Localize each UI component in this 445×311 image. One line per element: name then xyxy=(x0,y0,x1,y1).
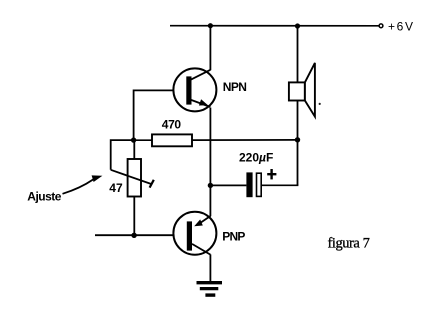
wire pot bottom lead xyxy=(133,197,135,236)
speaker LS1 xyxy=(289,63,315,117)
wire NPN collector vertical xyxy=(209,26,211,70)
transistor Q1 NPN xyxy=(173,68,216,111)
arrow ajuste pointer xyxy=(63,175,103,193)
wire speaker branch vertical xyxy=(297,26,299,185)
node pot / PNP base junction xyxy=(131,233,136,238)
wire top supply rail xyxy=(170,25,379,27)
wire PNP collector vertical to ground xyxy=(209,254,211,282)
svg-text:figura 7: figura 7 xyxy=(328,235,370,251)
wire PNP base lead xyxy=(95,234,173,236)
ground xyxy=(197,283,223,295)
wiper end tick xyxy=(150,180,154,188)
svg-text:PNP: PNP xyxy=(222,229,245,243)
label + cap polarity xyxy=(267,169,276,179)
wire resistor right lead to speaker branch xyxy=(192,139,298,141)
wire capacitor right lead xyxy=(262,184,298,186)
node speaker branch / resistor junction xyxy=(295,137,300,142)
wire resistor left lead xyxy=(134,139,152,141)
transistor Q2 PNP xyxy=(173,212,216,255)
node A bias junction xyxy=(131,137,136,142)
svg-text:470: 470 xyxy=(162,117,182,131)
svg-text:+ 6 V: + 6 V xyxy=(388,19,413,33)
wire capacitor left lead xyxy=(210,184,246,186)
wiper diagonal of potentiometer xyxy=(111,170,151,184)
wire pot upper bend from node A xyxy=(111,140,134,170)
capacitor C1 220uF xyxy=(246,172,261,197)
node rail junction at collector branch xyxy=(208,23,213,28)
terminal +6V open circle xyxy=(379,24,383,28)
wire pot top lead xyxy=(133,140,135,159)
node rail junction at speaker branch xyxy=(295,23,300,28)
node capacitor junction on emitter line xyxy=(208,183,213,188)
svg-text:220µF: 220µF xyxy=(239,151,273,165)
resistor R1 470 xyxy=(152,134,192,146)
wire NPN emitter vertical down to PNP xyxy=(209,108,211,217)
wire NPN base bend xyxy=(134,90,173,140)
svg-text:Ajuste: Ajuste xyxy=(27,189,62,203)
svg-text:NPN: NPN xyxy=(223,80,247,94)
ink speck near speaker cone xyxy=(319,103,321,105)
svg-text:47: 47 xyxy=(109,181,123,195)
potentiometer P1 47 xyxy=(128,159,141,197)
